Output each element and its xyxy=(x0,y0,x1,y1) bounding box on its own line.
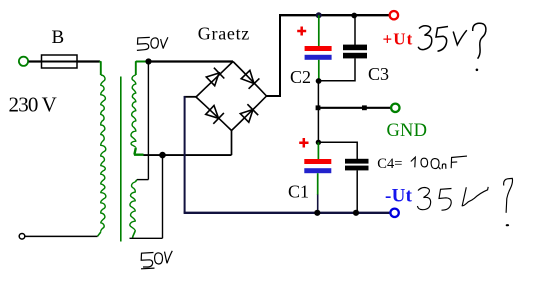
svg-text:+Ut: +Ut xyxy=(383,30,414,49)
label 100nF handwritten xyxy=(411,156,467,169)
terminal top-left (230V input, green circle) xyxy=(19,57,28,66)
bridge edge bottom-right xyxy=(232,96,267,131)
wire terminal to fuse xyxy=(29,60,42,62)
C1 top lead (green) xyxy=(317,142,319,160)
wire navy: bridge left corner to -Ut rail xyxy=(184,96,196,98)
-Ut bottom rail (navy) xyxy=(184,212,391,214)
svg-text:C4=: C4= xyxy=(377,156,402,172)
diode D4 (bottom-left edge) xyxy=(206,106,224,124)
transformer secondary lower winding xyxy=(130,182,135,231)
C2 bottom lead (green) xyxy=(318,60,320,81)
primary top lead (green corner) xyxy=(99,62,101,76)
junction dot -Ut rail at C4 xyxy=(353,210,359,216)
secondary lower bottom lead xyxy=(133,231,136,238)
junction dot top rail at C3 xyxy=(351,13,357,19)
wire bottom-left to terminal xyxy=(25,235,98,237)
junction dot C1/C4 node xyxy=(316,140,321,145)
bridge edge top-right xyxy=(233,62,267,97)
capacitor C4 bottom plate xyxy=(345,166,369,171)
wire C4 branch horizontal xyxy=(318,142,357,159)
junction dot below C2/C3 xyxy=(316,78,322,84)
bridge edge top-left xyxy=(196,62,233,98)
label 35V ? top handwritten xyxy=(418,23,486,58)
diode D1 (top-right edge) xyxy=(241,70,259,88)
capacitor C4 top plate xyxy=(345,159,369,164)
svg-text:-Ut: -Ut xyxy=(385,185,413,206)
junction dot -Ut rail at C1 xyxy=(314,210,320,216)
junction square GND mid xyxy=(362,105,367,110)
wire vertical center-tap down xyxy=(162,155,164,238)
svg-text:GND: GND xyxy=(387,121,428,141)
svg-text:Graetz: Graetz xyxy=(198,23,250,43)
svg-text:230 V: 230 V xyxy=(9,93,57,117)
capacitor C2 plus sign xyxy=(297,27,306,36)
capacitor C1 plus sign xyxy=(299,138,308,148)
+Ut top rail xyxy=(279,14,390,16)
secondary upper top lead xyxy=(136,62,146,76)
C3 bottom lead to junction xyxy=(319,58,355,80)
wire vertical from top junction down xyxy=(147,62,149,180)
transformer secondary upper winding xyxy=(131,75,136,148)
wire secondary top to bridge top corner xyxy=(149,60,234,62)
svg-text:B: B xyxy=(52,27,65,48)
wire center tap to bridge bottom corner xyxy=(144,154,232,156)
junction dot secondary top xyxy=(145,58,151,64)
GND rail xyxy=(318,107,391,109)
wire bridge bottom corner down to center-tap wire xyxy=(231,131,233,156)
diode D3 (bottom-right edge) xyxy=(240,104,258,122)
junction dot top rail at C2 xyxy=(316,12,322,18)
label 35V ? bottom handwritten xyxy=(417,178,512,212)
label 50V top (handwritten) xyxy=(137,37,168,50)
wire horizontal to lower winding top xyxy=(137,179,148,181)
capacitor C3 top plate xyxy=(343,45,367,51)
terminal -Ut (blue circle) xyxy=(390,209,398,217)
junction square GND left xyxy=(316,105,321,110)
diode D2 (top-left edge) xyxy=(206,68,224,86)
wire junction down to GND rail xyxy=(317,81,319,108)
fuse through-line xyxy=(42,61,78,63)
transformer primary winding xyxy=(101,75,106,232)
wire fuse to transformer primary top xyxy=(77,60,100,62)
bridge edge bottom-left xyxy=(196,97,232,131)
dot of ? bottom xyxy=(506,224,509,226)
secondary upper bottom lead (green corner to center tap) xyxy=(135,148,144,155)
wire bridge right corner to +Ut rail xyxy=(267,15,281,96)
capacitor C3 bottom plate xyxy=(343,53,367,59)
terminal GND (green circle) xyxy=(391,104,399,112)
capacitor C1 red plate xyxy=(304,159,331,164)
wire GND rail down to C1/C4 node xyxy=(317,108,319,143)
terminal +Ut (red circle) xyxy=(390,11,398,19)
capacitor C1 blue plate xyxy=(304,168,331,173)
junction dot center tap xyxy=(159,152,166,159)
capacitor C2 blue plate xyxy=(305,55,332,60)
C2 top lead (green) xyxy=(318,15,320,46)
secondary lower top lead xyxy=(135,180,137,182)
capacitor C2 red plate xyxy=(305,46,332,51)
transformer core xyxy=(120,77,122,242)
svg-text:C2: C2 xyxy=(290,67,311,87)
primary bottom lead xyxy=(98,232,101,236)
dot of ? top xyxy=(476,69,479,72)
svg-text:C1: C1 xyxy=(288,181,309,201)
svg-text:C3: C3 xyxy=(368,64,389,84)
label 50V bottom (handwritten) xyxy=(141,251,172,269)
C4 bottom lead xyxy=(356,170,358,212)
fuse B body xyxy=(42,55,78,68)
terminal bottom-left (black circle) xyxy=(19,234,25,240)
C1 bottom lead (green then dark) xyxy=(317,173,319,195)
wire lower winding bottom to center-tap vertical xyxy=(130,237,163,239)
C3 top lead xyxy=(354,15,356,45)
